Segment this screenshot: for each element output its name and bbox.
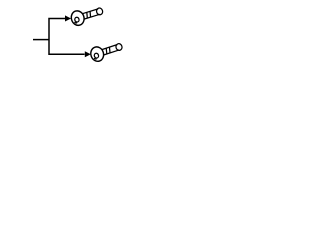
screw 2 (bottom)	[89, 39, 124, 63]
arrowhead top	[65, 15, 71, 21]
wire: left stub	[33, 39, 49, 41]
screw 1 (top)	[70, 4, 105, 27]
wire: bracket (top branch, vertical, bottom branch)	[49, 18, 85, 54]
arrowhead bottom	[85, 51, 91, 57]
